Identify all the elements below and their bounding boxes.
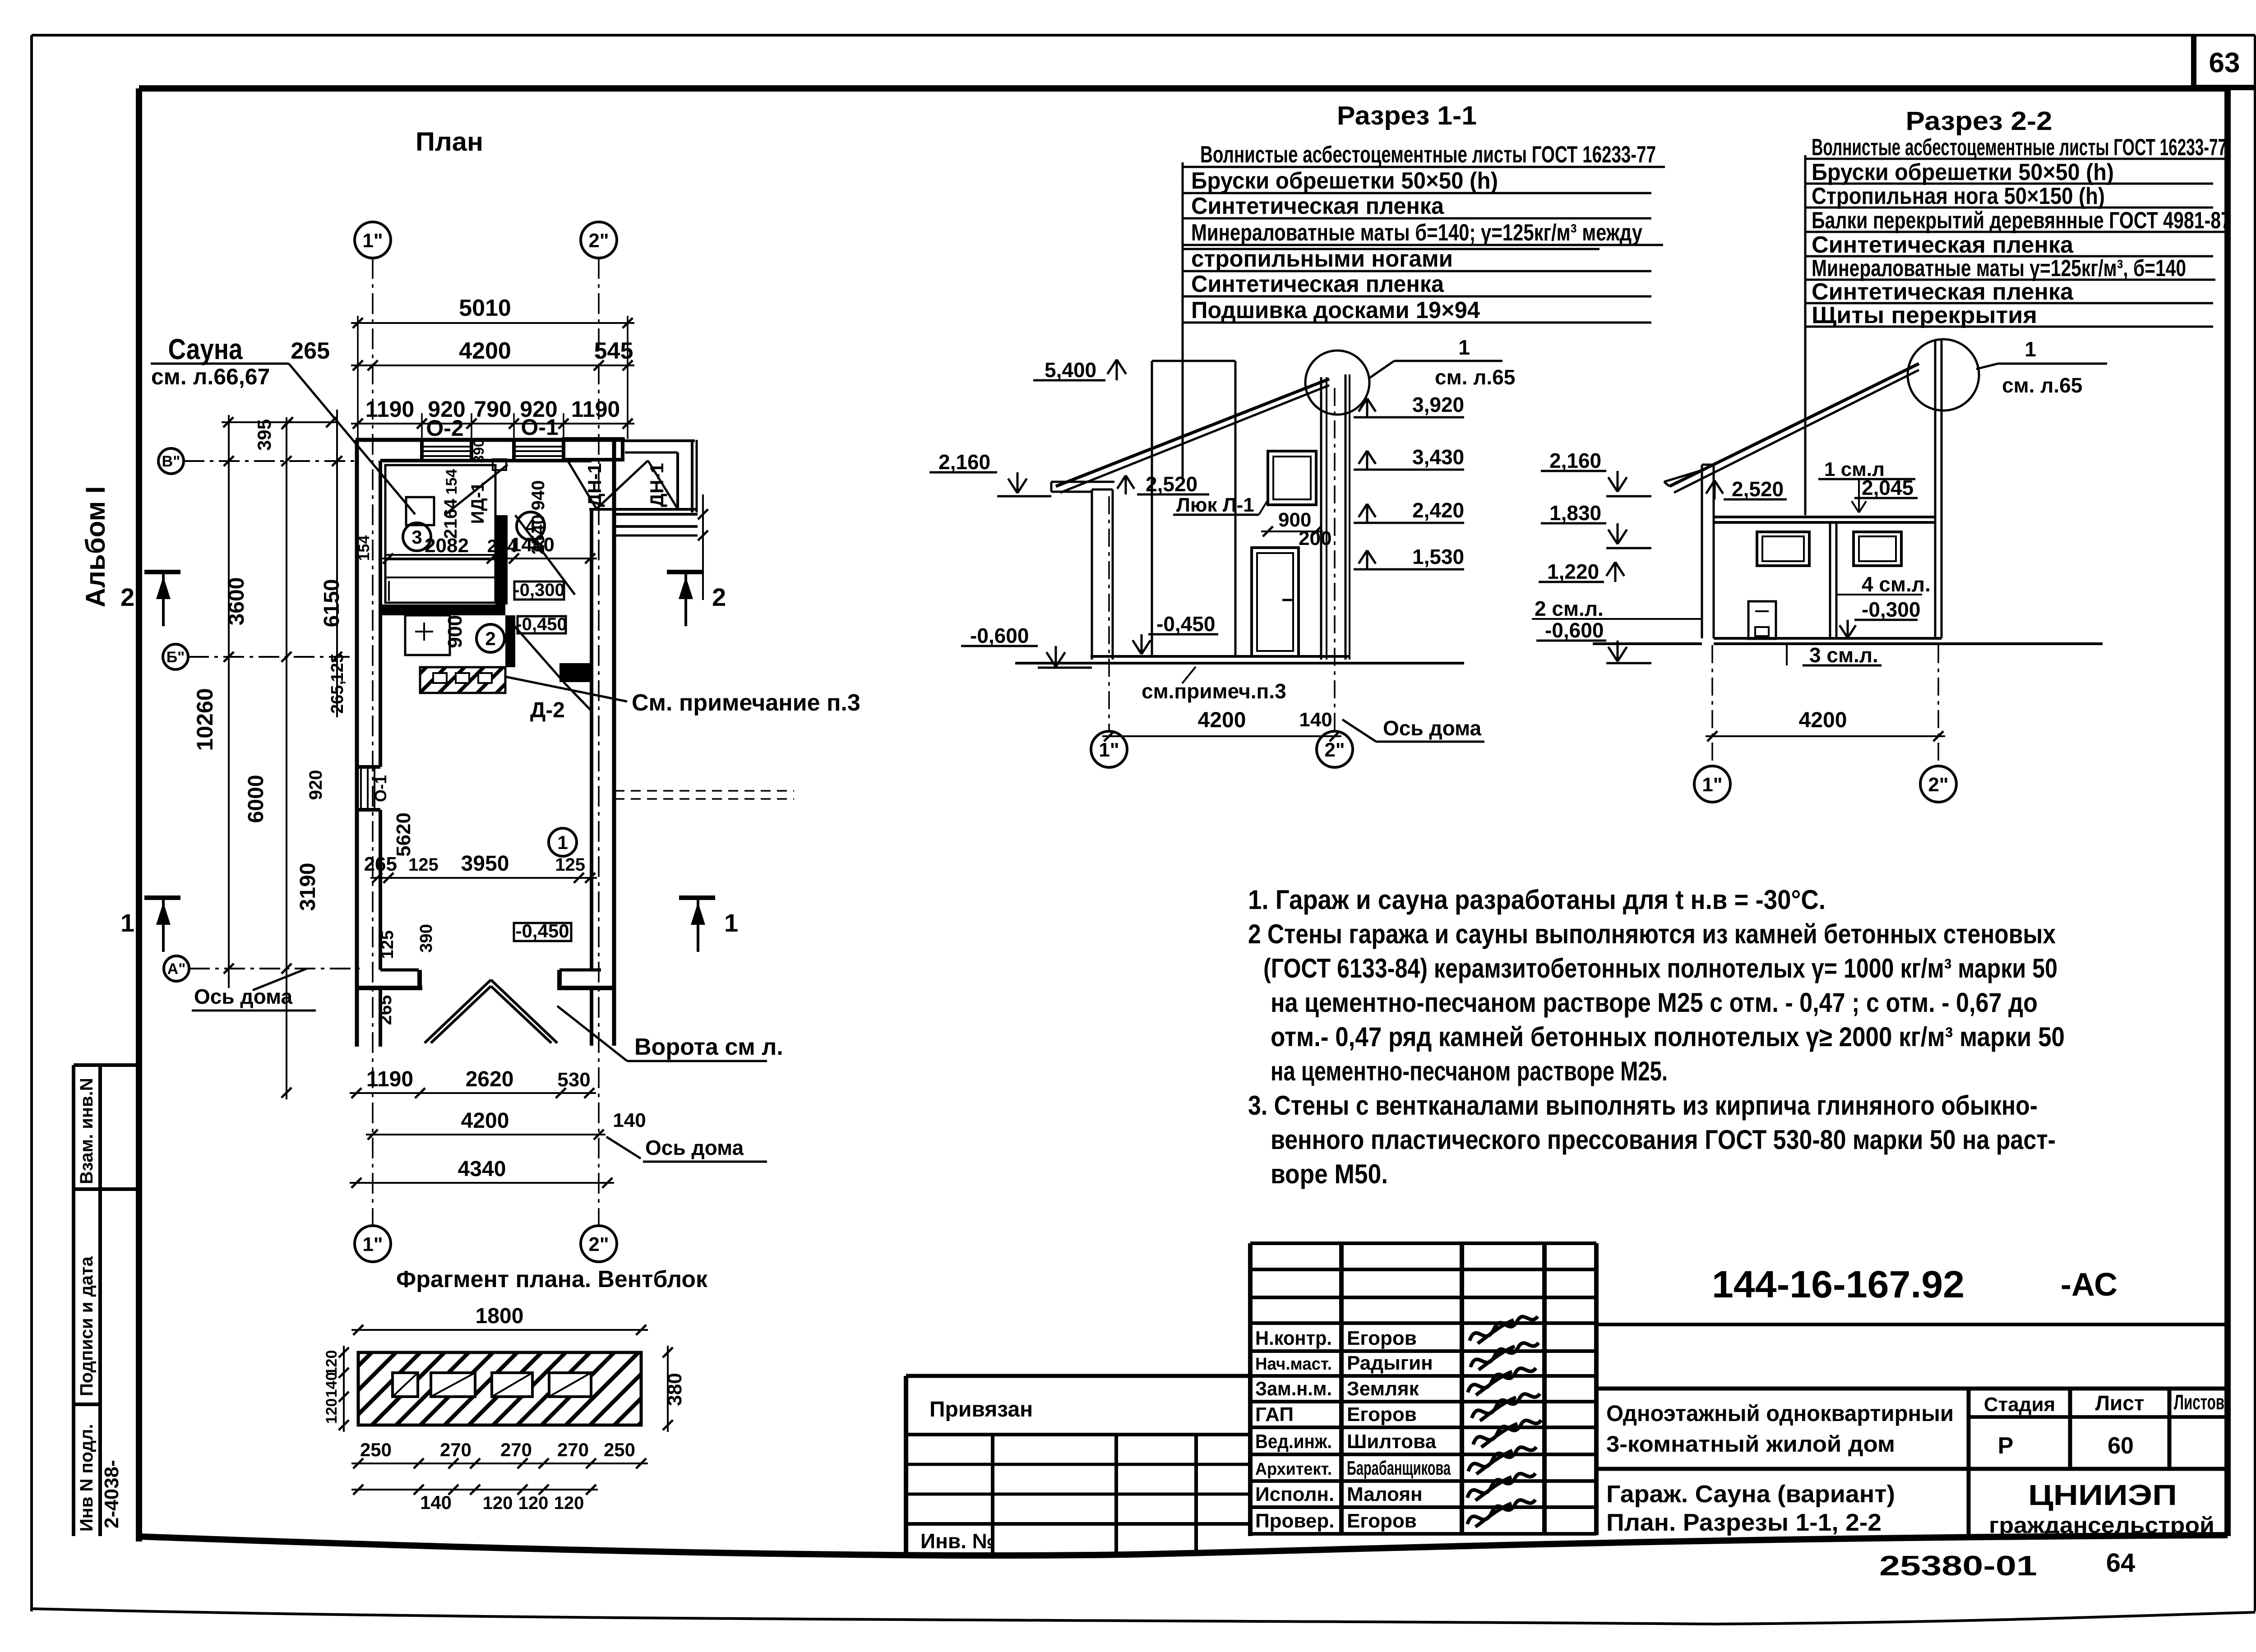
svg-text:5010: 5010 xyxy=(459,295,511,321)
svg-text:3,920: 3,920 xyxy=(1412,393,1464,416)
svg-text:2: 2 xyxy=(712,583,726,611)
svg-text:140: 140 xyxy=(323,1372,340,1398)
svg-text:1800: 1800 xyxy=(476,1304,524,1328)
svg-text:1,530: 1,530 xyxy=(1412,545,1464,568)
svg-text:Одноэтажный одноквартирныи: Одноэтажный одноквартирныи xyxy=(1606,1401,1954,1426)
svg-text:Разрез 1-1: Разрез 1-1 xyxy=(1337,101,1477,130)
svg-text:250: 250 xyxy=(604,1439,635,1460)
svg-text:План: План xyxy=(416,127,483,157)
svg-text:3600: 3600 xyxy=(225,577,249,626)
svg-text:2: 2 xyxy=(485,628,495,649)
svg-text:60: 60 xyxy=(2108,1433,2134,1459)
svg-text:6150: 6150 xyxy=(320,579,344,628)
svg-text:-0,600: -0,600 xyxy=(970,624,1029,647)
svg-text:4200: 4200 xyxy=(1799,708,1847,732)
svg-text:2 Стены гаража и сауны вып: 2 Стены гаража и сауны выполняются из ка… xyxy=(1248,919,2056,949)
svg-text:4200: 4200 xyxy=(461,1109,509,1133)
svg-text:1: 1 xyxy=(1458,336,1470,359)
svg-text:2": 2" xyxy=(1324,739,1345,761)
svg-text:Малоян: Малоян xyxy=(1347,1483,1423,1505)
svg-text:Стропильная нога 50×150 (h): Стропильная нога 50×150 (h) xyxy=(1812,183,2105,209)
svg-text:1190: 1190 xyxy=(366,1067,413,1091)
svg-text:125: 125 xyxy=(555,855,585,875)
svg-text:-0,450: -0,450 xyxy=(1156,612,1215,636)
svg-text:Привязан: Привязан xyxy=(929,1398,1033,1421)
svg-text:Шилтова: Шилтова xyxy=(1347,1431,1437,1453)
svg-text:5,400: 5,400 xyxy=(1045,358,1096,382)
svg-text:2,520: 2,520 xyxy=(1146,472,1197,496)
svg-text:790: 790 xyxy=(474,397,511,422)
svg-text:Подшивка досками 19×94: Подшивка досками 19×94 xyxy=(1191,297,1480,323)
svg-text:4340: 4340 xyxy=(458,1157,506,1181)
svg-text:Ворота см л.: Ворота см л. xyxy=(634,1034,783,1060)
svg-text:ЦНИИЭП: ЦНИИЭП xyxy=(2028,1479,2177,1511)
svg-text:Подписи и дата: Подписи и дата xyxy=(77,1256,97,1396)
svg-text:2,160: 2,160 xyxy=(938,450,990,474)
svg-text:Радыгин: Радыгин xyxy=(1347,1352,1433,1374)
svg-text:-0,450: -0,450 xyxy=(516,614,567,634)
svg-text:200: 200 xyxy=(1299,527,1331,549)
svg-text:3190: 3190 xyxy=(296,863,320,911)
svg-text:2540: 2540 xyxy=(528,515,548,555)
svg-text:2-4038-: 2-4038- xyxy=(101,1460,123,1528)
svg-text:Бруски обрешетки 50×50 (h): Бруски обрешетки 50×50 (h) xyxy=(1191,168,1498,194)
svg-text:-0,300: -0,300 xyxy=(1862,598,1920,621)
svg-text:920: 920 xyxy=(306,770,326,800)
svg-text:120: 120 xyxy=(554,1493,584,1513)
svg-text:венного пластического прессо: венного пластического прессования ГОСТ 5… xyxy=(1271,1125,2056,1155)
svg-text:Нач.маст.: Нач.маст. xyxy=(1255,1355,1332,1374)
svg-text:1": 1" xyxy=(1099,739,1119,761)
svg-text:125: 125 xyxy=(408,855,439,875)
svg-text:380: 380 xyxy=(664,1373,686,1406)
svg-text:64: 64 xyxy=(2106,1548,2136,1578)
svg-text:2,420: 2,420 xyxy=(1412,498,1464,522)
svg-text:120: 120 xyxy=(323,1350,340,1376)
svg-text:Земляк: Земляк xyxy=(1347,1378,1419,1400)
svg-text:Бруски обрешетки 50×50 (h): Бруски обрешетки 50×50 (h) xyxy=(1812,159,2114,185)
svg-text:120: 120 xyxy=(483,1493,513,1513)
svg-text:Минераловатные маты б=140; γ=1: Минераловатные маты б=140; γ=125кг/м³ ме… xyxy=(1191,220,1642,246)
svg-text:Балки перекрытий деревянные ГО: Балки перекрытий деревянные ГОСТ 4981-87 xyxy=(1812,208,2231,234)
svg-text:1": 1" xyxy=(362,230,383,252)
svg-text:О-2: О-2 xyxy=(426,415,463,441)
svg-text:5620: 5620 xyxy=(393,812,415,857)
svg-text:390: 390 xyxy=(471,439,487,463)
svg-text:1,220: 1,220 xyxy=(1547,560,1599,583)
svg-text:2,520: 2,520 xyxy=(1732,477,1784,501)
svg-text:265: 265 xyxy=(291,338,330,364)
svg-text:1: 1 xyxy=(120,909,134,937)
svg-text:2 см.л.: 2 см.л. xyxy=(1535,597,1604,620)
svg-text:-0,300: -0,300 xyxy=(513,580,564,600)
svg-text:2": 2" xyxy=(1928,774,1948,796)
svg-text:Егоров: Егоров xyxy=(1347,1403,1417,1426)
svg-text:см.примеч.п.3: см.примеч.п.3 xyxy=(1142,679,1286,703)
svg-text:390: 390 xyxy=(417,924,436,952)
svg-text:отм.- 0,47 ряд камней бетон: отм.- 0,47 ряд камней бетонных полнотелы… xyxy=(1271,1022,2065,1052)
svg-text:Листов: Листов xyxy=(2174,1390,2224,1414)
svg-text:на цементно-песчаном раствор: на цементно-песчаном растворе М25 с отм.… xyxy=(1271,988,2038,1018)
svg-text:3950: 3950 xyxy=(461,852,509,876)
svg-text:3: 3 xyxy=(411,526,422,548)
svg-text:Синтетическая пленка: Синтетическая пленка xyxy=(1812,279,2074,305)
svg-text:Провер.: Провер. xyxy=(1255,1510,1334,1532)
svg-text:4 см.л.: 4 см.л. xyxy=(1862,572,1931,596)
svg-text:Минераловатные маты γ=125кг/м³: Минераловатные маты γ=125кг/м³, б=140 xyxy=(1812,255,2186,281)
svg-text:-АС: -АС xyxy=(2061,1267,2117,1303)
svg-text:4200: 4200 xyxy=(1198,708,1246,732)
svg-text:154: 154 xyxy=(356,535,373,561)
svg-text:265: 265 xyxy=(375,995,395,1025)
svg-text:3 см.л.: 3 см.л. xyxy=(1809,643,1878,667)
svg-text:154: 154 xyxy=(443,469,460,495)
svg-text:265,: 265, xyxy=(328,680,347,714)
svg-text:воре М50.: воре М50. xyxy=(1271,1159,1388,1189)
svg-text:Р: Р xyxy=(1998,1433,2014,1459)
svg-text:О-1: О-1 xyxy=(371,775,390,802)
svg-text:О-1: О-1 xyxy=(521,415,558,440)
svg-text:3,430: 3,430 xyxy=(1412,445,1464,469)
svg-text:530: 530 xyxy=(557,1069,590,1091)
svg-text:140: 140 xyxy=(613,1109,646,1131)
svg-text:см. л.65: см. л.65 xyxy=(2002,374,2082,397)
svg-text:1: 1 xyxy=(724,909,738,937)
svg-text:Инв N подл.: Инв N подл. xyxy=(77,1424,97,1532)
svg-text:125: 125 xyxy=(378,930,397,959)
svg-text:940: 940 xyxy=(528,480,548,511)
svg-text:Егоров: Егоров xyxy=(1347,1327,1417,1349)
svg-text:144-16-167.92: 144-16-167.92 xyxy=(1712,1263,1965,1306)
svg-text:2": 2" xyxy=(588,1233,609,1255)
svg-text:см. л.66,67: см. л.66,67 xyxy=(151,364,270,389)
svg-text:ДН-1: ДН-1 xyxy=(584,463,605,507)
svg-text:Б": Б" xyxy=(166,649,185,666)
svg-text:Стадия: Стадия xyxy=(1984,1394,2055,1416)
svg-text:Лист: Лист xyxy=(2095,1391,2145,1415)
svg-text:Волнистые асбестоцементные лис: Волнистые асбестоцементные листы ГОСТ 16… xyxy=(1812,134,2227,161)
svg-text:140: 140 xyxy=(1299,709,1332,731)
svg-text:Волнистые асбестоцементные лис: Волнистые асбестоцементные листы ГОСТ 16… xyxy=(1200,142,1656,168)
svg-text:Фрагмент плана. Вентблок: Фрагмент плана. Вентблок xyxy=(396,1266,708,1292)
svg-text:В": В" xyxy=(162,453,180,470)
svg-text:Инв. №: Инв. № xyxy=(920,1529,995,1553)
svg-text:Люк Л-1: Люк Л-1 xyxy=(1176,494,1254,516)
svg-text:1": 1" xyxy=(1702,774,1722,796)
svg-text:2: 2 xyxy=(120,583,134,611)
svg-text:Архитект.: Архитект. xyxy=(1255,1460,1332,1479)
svg-text:Вед.инж.: Вед.инж. xyxy=(1255,1431,1332,1453)
svg-text:250: 250 xyxy=(360,1439,392,1460)
svg-text:1": 1" xyxy=(362,1233,383,1255)
svg-text:Егоров: Егоров xyxy=(1347,1510,1417,1532)
svg-text:2,160: 2,160 xyxy=(1549,449,1601,472)
svg-text:См. примечание п.3: См. примечание п.3 xyxy=(632,690,860,716)
svg-text:1: 1 xyxy=(557,832,568,853)
svg-text:1: 1 xyxy=(2025,337,2036,361)
svg-text:Барабанщикова: Барабанщикова xyxy=(1347,1457,1451,1479)
svg-text:Синтетическая пленка: Синтетическая пленка xyxy=(1191,193,1444,219)
svg-text:ГАП: ГАП xyxy=(1255,1403,1294,1426)
svg-text:265: 265 xyxy=(364,853,397,875)
svg-text:ИД-1: ИД-1 xyxy=(468,482,488,524)
svg-text:120: 120 xyxy=(518,1493,549,1513)
svg-text:2,045: 2,045 xyxy=(1862,476,1914,499)
svg-text:125: 125 xyxy=(328,653,347,682)
svg-text:3-комнатный жилой дом: 3-комнатный жилой дом xyxy=(1606,1431,1895,1457)
svg-text:1190: 1190 xyxy=(365,397,414,422)
svg-text:Сауна: Сауна xyxy=(168,333,243,365)
svg-text:Разрез 2-2: Разрез 2-2 xyxy=(1906,106,2053,136)
svg-text:на цементно-песчаном раствор: на цементно-песчаном растворе М25. xyxy=(1271,1056,1668,1086)
svg-text:10260: 10260 xyxy=(192,688,217,751)
svg-text:25380-01: 25380-01 xyxy=(1879,1550,2037,1582)
svg-text:Щиты перекрытия: Щиты перекрытия xyxy=(1812,302,2037,328)
svg-text:Ось дома: Ось дома xyxy=(1383,716,1482,740)
svg-text:270: 270 xyxy=(557,1439,589,1460)
svg-text:3. Стены с вентканалами вып: 3. Стены с вентканалами выполнять из кир… xyxy=(1248,1090,2038,1121)
svg-text:Исполн.: Исполн. xyxy=(1255,1483,1334,1505)
svg-text:А": А" xyxy=(167,960,186,978)
svg-text:-0,450: -0,450 xyxy=(515,920,569,941)
svg-text:План. Разрезы 1-1, 2-2: План. Разрезы 1-1, 2-2 xyxy=(1606,1509,1882,1536)
svg-text:6000: 6000 xyxy=(244,775,268,823)
svg-text:Гараж. Сауна (вариант): Гараж. Сауна (вариант) xyxy=(1606,1481,1895,1508)
svg-text:1,830: 1,830 xyxy=(1549,501,1601,525)
svg-text:-0,600: -0,600 xyxy=(1545,618,1604,642)
svg-text:120: 120 xyxy=(323,1398,340,1424)
svg-text:1190: 1190 xyxy=(571,397,620,422)
svg-text:Взам. инв.N: Взам. инв.N xyxy=(77,1078,97,1184)
svg-text:Синтетическая пленка: Синтетическая пленка xyxy=(1812,232,2074,258)
svg-text:Ось дома: Ось дома xyxy=(645,1136,744,1159)
svg-text:395: 395 xyxy=(254,419,275,451)
svg-text:Д-2: Д-2 xyxy=(530,698,565,722)
svg-text:1. Гараж и сауна разработаны: 1. Гараж и сауна разработаны для t н.в =… xyxy=(1248,885,1826,915)
svg-text:2620: 2620 xyxy=(466,1067,514,1091)
svg-text:4200: 4200 xyxy=(459,338,511,364)
svg-text:ДН-1: ДН-1 xyxy=(646,463,667,507)
svg-text:Ось дома: Ось дома xyxy=(194,985,293,1008)
svg-text:см. л.65: см. л.65 xyxy=(1435,365,1515,389)
svg-text:Синтетическая пленка: Синтетическая пленка xyxy=(1191,271,1444,297)
svg-text:63: 63 xyxy=(2209,47,2240,78)
svg-text:140: 140 xyxy=(420,1492,452,1513)
svg-text:270: 270 xyxy=(440,1439,472,1460)
svg-text:Зам.н.м.: Зам.н.м. xyxy=(1255,1378,1332,1400)
svg-text:(ГОСТ 6133-84) керамзитобетон: (ГОСТ 6133-84) керамзитобетонных полноте… xyxy=(1263,953,2057,983)
svg-text:2164: 2164 xyxy=(441,498,461,539)
svg-text:Н.контр.: Н.контр. xyxy=(1255,1327,1332,1349)
svg-text:900: 900 xyxy=(444,615,466,648)
svg-text:270: 270 xyxy=(500,1439,532,1460)
svg-text:граждансельстрой: граждансельстрой xyxy=(1989,1513,2214,1538)
svg-text:2": 2" xyxy=(588,230,609,252)
svg-text:Альбом I: Альбом I xyxy=(80,486,111,608)
